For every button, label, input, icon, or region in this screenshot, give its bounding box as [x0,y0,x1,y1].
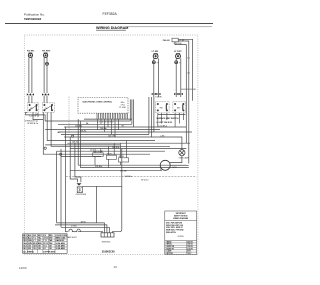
svg-text:4B R▸: 4B R▸ [81,220,86,223]
EOC pin drop wires [98,119,119,137]
wire [129,99,131,121]
connector plug B [45,62,49,65]
wire bundle horizontals [45,121,190,156]
oven cavity wire loop [82,186,121,233]
svg-text:2100 W: 2100 W [187,248,193,250]
bake element [69,229,80,232]
oven section dashed line [66,175,197,177]
terminal block TB2 [101,233,114,237]
wire L1 [178,39,192,101]
infinite switch SW4 [173,102,186,113]
splice terminal [152,93,156,95]
svg-text:ONLY REPL. WIRE OF: ONLY REPL. WIRE OF [166,227,183,229]
wire [170,156,182,163]
svg-text:41A BK▸: 41A BK▸ [95,165,102,168]
wire [31,96,33,103]
svg-text:GY 10: GY 10 [43,238,48,240]
svg-text:ELECTRONIC OVEN CONTROL: ELECTRONIC OVEN CONTROL [83,101,113,103]
junction plug [72,135,74,137]
svg-text:14A W▸: 14A W▸ [100,127,107,130]
mid wire labels [95,141,140,173]
wire [175,58,177,60]
oven light L1 [179,150,185,156]
wire [148,97,150,135]
svg-text:Y 6: Y 6 [33,238,36,240]
wire [154,97,192,132]
svg-text:22A BK▸: 22A BK▸ [75,124,82,127]
wire [153,58,155,60]
svg-text:BAKE ELMT: BAKE ELMT [67,236,78,239]
wire [175,64,177,97]
surface unit D [176,54,181,59]
wire [133,99,135,127]
wire [28,57,30,93]
wire [46,65,48,93]
terminal block TB [172,38,178,42]
relay K2 [106,153,116,160]
wire color code table [23,234,68,254]
wire label arrow [25,119,39,125]
connector plug D [174,61,178,64]
oven sensor probe [77,187,82,193]
svg-text:36A BU▸: 36A BU▸ [112,146,120,149]
wire jog D to riser [181,88,193,90]
svg-text:WIRING DIAGRAM: WIRING DIAGRAM [173,217,188,220]
splice terminal [179,93,183,95]
wire [151,97,182,150]
svg-text:P1 GND: P1 GND [119,107,126,109]
svg-text:36 W‑2 ▸: 36 W‑2 ▸ [141,178,149,181]
splice terminal [156,93,160,95]
wire [160,168,162,170]
relay K3 [118,156,128,162]
svg-text:TERM BLK: TERM BLK [102,241,112,243]
wire [131,99,133,124]
wire [33,112,43,119]
svg-text:1250 W: 1250 W [187,246,193,248]
wire [46,96,48,103]
svg-text:SERVICING UNIT. USE: SERVICING UNIT. USE [166,225,183,227]
svg-text:RT. FRT.: RT. FRT. [42,50,51,52]
wire [153,64,155,97]
EOC pin bus wire [84,118,132,120]
svg-text:6 MOTOR: 6 MOTOR [166,253,174,255]
svg-text:L1 H1 P BK‑W 22: L1 H1 P BK‑W 22 [156,122,172,124]
wire [28,96,30,103]
svg-text:P40 A B: P40 A B [163,39,170,42]
svg-text:ALL WIRING: ALL WIRING [23,251,34,254]
svg-text:13: 13 [114,265,118,269]
splice terminal [27,93,31,95]
wire [51,112,170,146]
svg-text:NOTES: NOTES [178,236,185,238]
surface unit C [153,54,158,59]
svg-text:OVEN LAMP: OVEN LAMP [179,157,190,160]
main dashed border [24,35,198,255]
svg-text:LT. RR.: LT. RR. [152,51,159,53]
junction plug [44,147,46,149]
svg-text:3000 W: 3000 W [187,244,193,246]
loop feed riser [121,149,123,187]
electronic oven control U1 [78,98,128,114]
probe connector [77,183,82,185]
surface unit A [28,53,32,57]
svg-text:150: 150 [49,248,52,250]
svg-text:8 F: 8 F [43,248,45,250]
svg-text:54B OR▸: 54B OR▸ [108,134,116,137]
bundle wire labels [72,124,165,151]
loop left branch wire [95,186,97,223]
EOC pin comb [97,113,128,119]
svg-text:OVN PROBE: OVN PROBE [75,194,86,196]
switch drop wires [158,113,184,127]
vertical drop wires [57,119,81,232]
svg-text:316B02C08: 316B02C08 [102,250,115,253]
svg-text:1 2 3 4 5 6 7 8 9 10: 1 2 3 4 5 6 7 8 9 10 [97,122,113,124]
svg-text:WIRE CODE: WIRE CODE [56,238,67,240]
svg-text:SW: SW [177,107,180,109]
wire [157,58,159,97]
svg-text:OR ▸: OR ▸ [121,104,125,107]
splice terminal [30,93,34,95]
svg-text:16 GA AWG: 16 GA AWG [56,245,66,248]
svg-text:SW: SW [45,108,48,110]
connector plug C [152,61,156,64]
title trailing rule [126,26,212,28]
wire [43,96,45,103]
right switch lower wire [158,114,186,116]
wire [46,57,48,62]
svg-text:LT. FRT.: LT. FRT. [174,51,182,53]
svg-text:250: 250 [28,248,31,250]
svg-text:YEL: YEL [38,238,41,240]
wire L2 [175,42,186,143]
oven door switch dashed wire [68,97,70,135]
svg-text:RT. RR.: RT. RR. [27,50,35,52]
splice terminal [45,93,49,95]
svg-text:18 GA AWG: 18 GA AWG [56,247,66,250]
infinite switch SW2 [42,103,54,113]
wire [43,57,45,93]
wire [180,58,182,97]
wire [43,112,150,154]
svg-text:DLB RELAY: DLB RELAY [93,150,104,153]
svg-text:105: 105 [38,248,41,250]
title underline [96,29,126,31]
relay K1 [93,150,104,156]
relay wires [95,141,126,168]
splice terminal [42,93,46,95]
wire [47,112,155,140]
svg-text:12 BK▸: 12 BK▸ [71,224,77,227]
svg-text:3 SURF RR: 3 SURF RR [166,246,175,248]
svg-text:33A R▸: 33A R▸ [80,129,86,132]
infinite switch SW3 [156,102,170,113]
svg-text:Publication No.: Publication No. [24,13,45,17]
wire [31,57,33,93]
svg-text:SURFACE UNIT SWITCH: SURFACE UNIT SWITCH [156,117,179,120]
surface unit B [44,53,48,57]
svg-text:BR 8: BR 8 [33,243,37,245]
svg-text:2 BROIL: 2 BROIL [166,244,172,246]
wire N [178,41,189,164]
mid-right horizontals [70,165,189,170]
svg-text:GN 4: GN 4 [23,242,27,245]
svg-text:DISC. PWR. BEFORE: DISC. PWR. BEFORE [166,222,182,224]
publication number text [24,13,45,22]
svg-text:12/03: 12/03 [19,266,27,270]
infinite switch SW1 [28,103,39,113]
svg-text:WIRING DIAGRAM: WIRING DIAGRAM [96,26,128,30]
svg-text:BAKE: BAKE [107,153,113,156]
svg-text:14 GA AWG: 14 GA AWG [56,242,66,245]
wire [26,112,45,121]
lower wire labels [71,220,86,227]
svg-text:23A Y▸: 23A Y▸ [72,140,78,143]
motor M1 [160,160,170,170]
svg-text:BU 2: BU 2 [23,238,27,240]
svg-text:SW: SW [160,107,163,109]
splice terminal [174,93,178,95]
header rule [5,23,213,25]
right riser labels [187,56,196,91]
svg-text:COPPER AWG: COPPER AWG [43,251,56,254]
svg-text:W WIR B 4 ▸: W WIR B 4 ▸ [27,122,38,125]
svg-text:L1 H1 P L2: L1 H1 P L2 [30,115,40,117]
svg-text:▸▸: ▸▸ [58,131,60,134]
svg-text:34A BK▸: 34A BK▸ [125,175,132,178]
pin wire labels [86,122,125,127]
svg-text:BK ▸: BK ▸ [121,101,125,104]
wire [170,164,189,166]
dashed line labels [125,175,149,182]
svg-text:PK 12: PK 12 [43,243,48,245]
svg-text:5995390993: 5995390993 [24,17,41,21]
svg-text:MTR: MTR [173,167,178,169]
svg-text:FEF352A: FEF352A [103,12,118,16]
notes box [165,211,197,255]
junction plug [60,153,62,155]
lower horizontals [55,223,109,233]
svg-text:P‑40 BK: P‑40 BK [155,97,162,99]
svg-text:SW: SW [30,108,33,110]
svg-text:GAUGE SZ: GAUGE SZ [56,239,65,242]
svg-text:30B W▸: 30B W▸ [120,170,127,173]
